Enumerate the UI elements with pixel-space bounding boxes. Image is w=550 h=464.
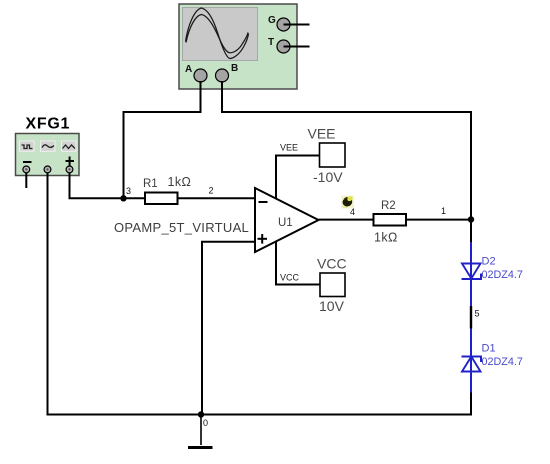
node label 0 <box>203 418 208 428</box>
svg-text:VCC: VCC <box>317 256 347 272</box>
svg-text:D2: D2 <box>482 255 496 267</box>
svg-text:-10V: -10V <box>313 169 343 185</box>
node label 1 <box>441 206 446 216</box>
wire node 1 to D2 (black part) <box>470 220 472 243</box>
svg-text:VEE: VEE <box>308 126 336 142</box>
svg-text:5: 5 <box>475 309 480 319</box>
node 0 junction <box>198 411 204 417</box>
op-amp pin label VEE <box>280 143 298 153</box>
wire scope B to node 1 riser <box>222 81 471 220</box>
svg-text:D1: D1 <box>482 342 496 354</box>
svg-text:3: 3 <box>126 186 131 196</box>
svg-text:4: 4 <box>350 207 355 217</box>
scope terminal A <box>185 64 207 82</box>
scope terminal B <box>216 63 239 82</box>
wire bottom rail <box>47 414 472 416</box>
resistor R1 <box>143 175 191 204</box>
node label 5 <box>475 309 480 319</box>
svg-text:2: 2 <box>209 186 214 196</box>
wire node 3 to R1 <box>124 197 146 199</box>
diode D2 (zener) <box>462 242 523 306</box>
wire XFG1 plus to node 3 <box>70 173 124 199</box>
XFG1 sine button <box>41 141 56 151</box>
XFG1 minus sign <box>23 161 32 163</box>
svg-text:R2: R2 <box>381 200 396 212</box>
XFG1 triangle button <box>62 141 77 151</box>
function generator XFG1 label <box>26 116 71 133</box>
function generator XFG1 body <box>16 134 80 176</box>
wire scope A to node 3 <box>124 81 201 198</box>
wire op-amp to VCC supply <box>276 241 320 284</box>
wire R1 to op-amp inverting input <box>178 197 256 199</box>
VEE supply <box>308 126 346 186</box>
svg-text:0: 0 <box>203 418 208 428</box>
probe on node 4 <box>341 195 354 208</box>
resistor R2 <box>374 200 407 245</box>
diode D1 (zener) <box>462 329 523 393</box>
op-amp U1 <box>255 188 319 252</box>
op-amp pin label VCC <box>280 273 300 283</box>
wire XFG1 common to bottom rail <box>47 173 49 415</box>
node 1 junction <box>468 216 474 222</box>
svg-text:U1: U1 <box>278 217 293 229</box>
wire VEE supply to op-amp <box>276 156 320 199</box>
svg-text:VEE: VEE <box>280 143 298 153</box>
node label 4 <box>350 207 355 217</box>
scope terminal G <box>268 15 310 31</box>
VCC supply <box>317 256 347 315</box>
svg-text:1: 1 <box>441 206 446 216</box>
svg-text:10V: 10V <box>319 298 345 314</box>
scope terminal T <box>268 37 310 53</box>
svg-text:XFG1: XFG1 <box>26 116 71 133</box>
svg-text:02DZ4.7: 02DZ4.7 <box>482 356 523 368</box>
svg-text:02DZ4.7: 02DZ4.7 <box>482 269 523 281</box>
oscilloscope body <box>179 4 297 89</box>
XFG1 square-wave button <box>20 141 35 151</box>
svg-text:R1: R1 <box>143 178 158 190</box>
ground <box>188 415 213 448</box>
wire op-amp output to R2 <box>319 219 374 221</box>
wire op-amp noninverting input to ground rail <box>202 242 255 415</box>
svg-text:VCC: VCC <box>280 273 300 283</box>
XFG1 terminal plus <box>66 166 73 173</box>
svg-text:B: B <box>231 63 238 74</box>
wire D1 to bottom rail (black part) <box>470 393 472 416</box>
node label 3 <box>126 186 131 196</box>
wire XFG1 minus stub <box>25 173 27 188</box>
wire node 5 segment between diodes <box>470 306 472 329</box>
svg-text:G: G <box>268 15 276 26</box>
svg-text:T: T <box>268 37 274 48</box>
node 3 junction <box>120 195 126 201</box>
XFG1 plus sign <box>66 157 75 166</box>
svg-text:A: A <box>185 64 192 75</box>
wire R2 to node 1 <box>406 219 471 221</box>
XFG1 terminal common <box>44 166 51 173</box>
node label 2 <box>209 186 214 196</box>
oscilloscope screen <box>183 8 258 61</box>
svg-text:1kΩ: 1kΩ <box>168 175 192 189</box>
svg-text:1kΩ: 1kΩ <box>374 231 398 245</box>
svg-text:OPAMP_5T_VIRTUAL: OPAMP_5T_VIRTUAL <box>114 220 249 235</box>
XFG1 terminal minus <box>23 166 30 173</box>
op-amp type label <box>114 220 249 235</box>
